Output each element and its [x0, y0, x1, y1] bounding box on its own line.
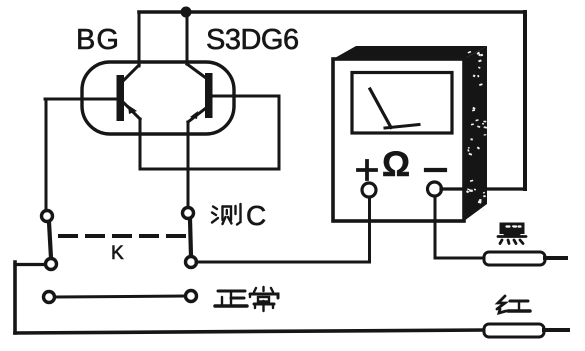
svg-text:BG: BG	[76, 24, 120, 56]
svg-text:Ω: Ω	[382, 145, 410, 184]
svg-text:C: C	[246, 200, 266, 231]
svg-text:K: K	[111, 243, 124, 264]
svg-text:S3DG6: S3DG6	[206, 24, 299, 56]
